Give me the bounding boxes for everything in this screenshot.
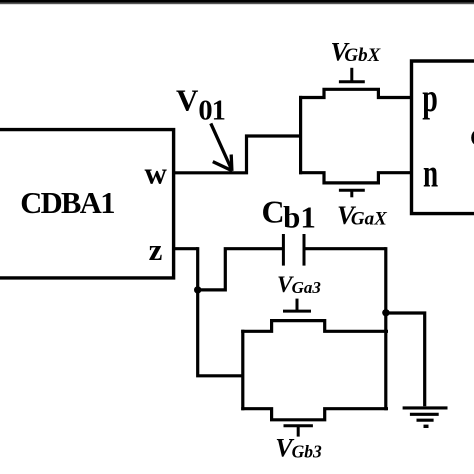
transistor MbX gate stub [350,68,353,82]
wire ground branch [387,313,424,406]
node A junction dot [194,286,201,293]
CDBA1 box U1 [0,130,174,278]
transistor Ma3 gate bar [283,310,311,313]
svg-text:w: w [145,155,168,190]
arrow V01 shaft [211,123,232,169]
partial letter at right edge (cropped box label) [471,131,474,145]
wire capacitor to right vertical [304,247,386,250]
wire right vertical net B [384,247,387,410]
svg-text:z: z [149,232,163,267]
svg-text:CDBA1: CDBA1 [20,186,114,220]
CDBA2 box U2 [412,61,474,214]
label p [422,76,438,120]
wire node A jog to capacitor [198,249,283,290]
transistor MbX channel/leads [299,89,413,97]
label n [423,152,438,195]
transistor Mb3 gate bar [284,424,313,427]
ground symbol [403,408,448,426]
wire w net: w terminal jog to X-gate [175,136,302,173]
node B junction dot [382,309,389,316]
svg-text:Cb1: Cb1 [262,194,316,235]
svg-text:p: p [422,76,438,120]
transistor Ma3 gate stub [296,299,299,312]
3-gate left vertical [241,330,244,411]
wire z terminal [175,247,198,250]
transistor MbX gate bar [339,80,365,83]
transistor Mb3 channel/leads [241,409,388,420]
wire z vertical to 3-gate branch [198,247,243,376]
capacitor Cb1 left plate [282,234,285,266]
figure top border crop [0,0,474,3]
transistor MaX channel/leads [299,173,413,183]
transistor Ma3 channel/leads [241,321,388,332]
arrow V01 head [213,155,233,171]
transistor Mb3 gate stub [297,426,300,437]
capacitor Cb1 right plate [303,234,306,266]
transistor MaX gate bar [339,189,365,192]
X-gate left vertical [299,96,302,174]
svg-text:n: n [423,152,438,195]
transistor MaX gate stub [350,190,353,197]
